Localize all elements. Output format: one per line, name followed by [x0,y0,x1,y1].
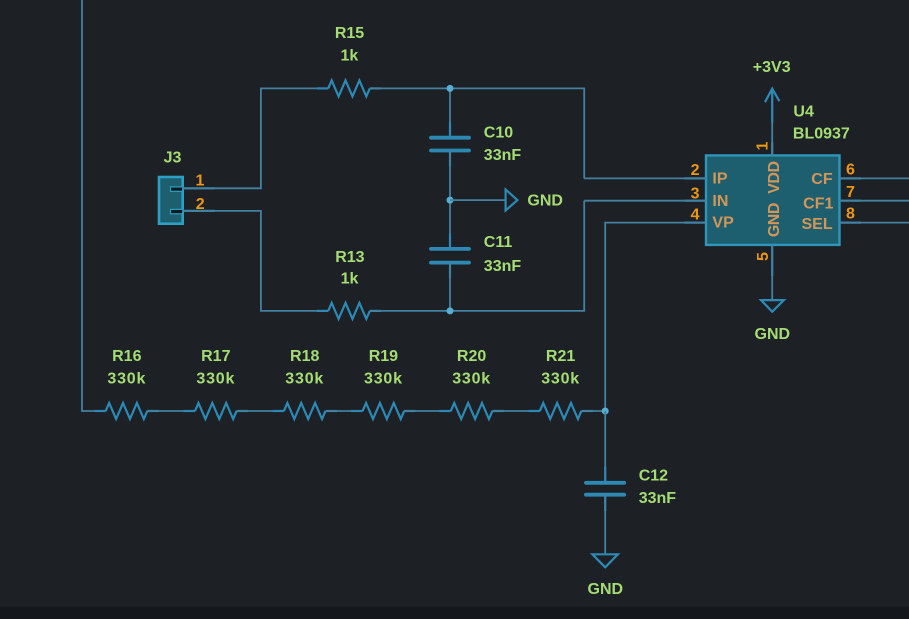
svg-text:1k: 1k [341,270,359,287]
svg-text:330k: 330k [452,371,491,388]
svg-text:R17: R17 [201,348,230,365]
wire C10 to mid node [449,151,451,249]
svg-text:J3: J3 [164,149,182,166]
svg-text:1: 1 [195,173,204,190]
svg-text:7: 7 [846,184,855,201]
pin 1 VDD [755,90,783,194]
svg-text:1: 1 [755,141,772,150]
capacitor C10 [431,122,521,166]
svg-text:R16: R16 [112,348,141,365]
wire C11 bottom [449,263,451,311]
svg-text:5: 5 [755,252,772,261]
wire node to C12 [604,411,606,483]
svg-text:R20: R20 [457,348,486,365]
svg-text:33nF: 33nF [484,258,522,275]
power +3V3 [753,59,791,122]
resistor R21 [529,348,593,419]
wire R18-R19 [326,410,363,412]
pin 2 IP [584,162,728,188]
svg-text:R19: R19 [369,348,398,365]
resistor R16 [94,348,158,419]
svg-text:IN: IN [712,193,728,210]
pin 4 VP [605,207,734,411]
svg-text:330k: 330k [541,371,580,388]
svg-text:IP: IP [712,170,727,187]
node bottom junction [447,307,454,314]
resistor R13 [317,249,381,319]
svg-text:330k: 330k [364,371,403,388]
svg-text:R21: R21 [546,348,575,365]
node mid junction [447,197,454,204]
svg-text:CF1: CF1 [803,195,833,212]
svg-text:BL0937: BL0937 [793,126,850,143]
resistor R20 [440,348,504,419]
svg-text:R15: R15 [335,25,364,42]
svg-text:330k: 330k [196,371,235,388]
resistor R19 [351,348,415,419]
wire J3 pin1 [183,88,329,188]
IC U4 BL0937 [685,103,862,276]
svg-text:C10: C10 [484,125,513,142]
svg-text:33nF: 33nF [484,147,522,164]
svg-text:CF: CF [811,171,833,188]
svg-text:GND: GND [527,193,563,210]
svg-text:R13: R13 [335,249,364,266]
wire to GND label [450,199,506,201]
resistor R17 [184,348,248,419]
svg-text:+3V3: +3V3 [753,59,791,76]
svg-text:SEL: SEL [801,216,832,233]
connector J3 [159,149,215,223]
svg-text:GND: GND [755,326,791,343]
wire R20-R21 [492,410,539,412]
wire J3 pin2 [183,211,329,311]
svg-text:3: 3 [691,185,700,202]
svg-text:2: 2 [691,162,700,179]
svg-text:C12: C12 [639,468,668,485]
capacitor C11 [431,234,521,279]
svg-text:8: 8 [846,206,855,223]
ground symbol U4 [755,300,791,343]
svg-text:GND: GND [588,581,624,598]
wire C10 branch top [449,88,451,137]
capacitor C12 [586,467,676,511]
wire R17-R18 [237,410,284,412]
pin 3 IN [584,185,728,210]
wire C12 to ground [604,495,606,555]
svg-text:6: 6 [846,162,855,179]
wire R21 to node [581,410,605,412]
node junction top [447,85,454,92]
svg-text:1k: 1k [341,47,359,64]
resistor R18 [273,348,337,419]
svg-text:VP: VP [712,215,734,232]
wire R15 to top-right corner [370,88,584,178]
ground symbol C12 [588,554,624,598]
svg-text:33nF: 33nF [639,490,677,507]
svg-text:330k: 330k [107,371,146,388]
resistor R15 [317,25,381,96]
svg-text:R18: R18 [290,348,319,365]
svg-text:C11: C11 [484,234,513,251]
svg-text:VDD: VDD [766,161,783,193]
pin 6 CF [811,162,909,189]
GND net label [506,190,563,211]
node chain junction [602,408,609,415]
pin 8 SEL [801,206,909,233]
wire R19-R20 [404,410,451,412]
pin 7 CF1 [803,184,909,213]
svg-text:U4: U4 [793,103,814,120]
wire R16-R17 [147,410,195,412]
wire left vertical bus [82,0,106,411]
wire R13 to bottom-right corner [370,201,584,311]
svg-text:GND: GND [766,203,783,237]
pin 5 GND [755,203,783,300]
svg-text:4: 4 [691,207,700,224]
svg-text:330k: 330k [285,371,324,388]
